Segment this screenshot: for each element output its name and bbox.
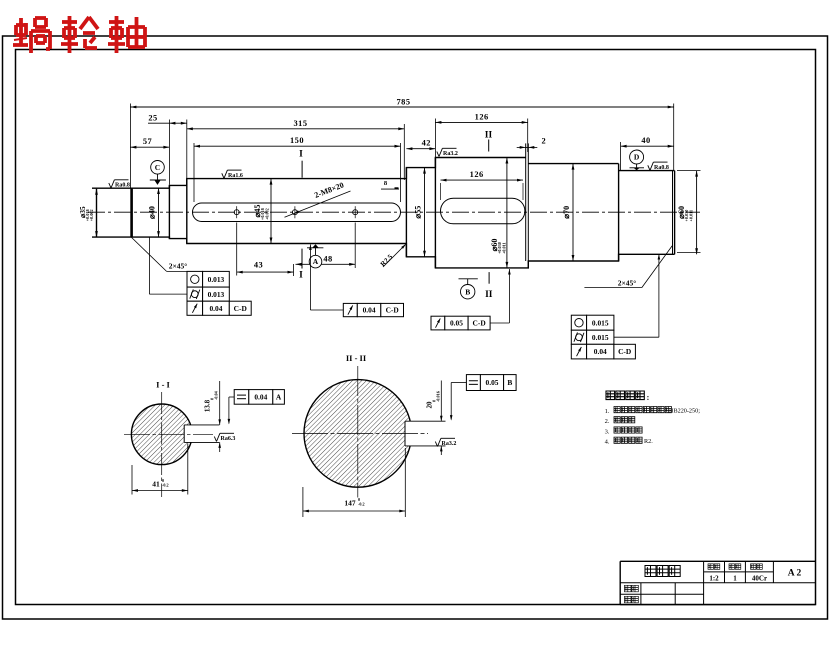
section II-II keyway flat xyxy=(404,421,406,446)
svg-text:-0.2: -0.2 xyxy=(162,483,169,488)
extension line right of 126 xyxy=(527,119,529,153)
dimension D70 xyxy=(572,164,575,170)
roughness Ra0.8 right journal xyxy=(648,165,650,170)
dimension 57 xyxy=(130,146,169,148)
dimension D35 arrows xyxy=(95,189,98,195)
svg-text:II - II: II - II xyxy=(346,353,367,363)
tolerance frame left leader xyxy=(148,238,150,295)
svg-text:147: 147 xyxy=(344,499,356,508)
extension line 57/25 shared xyxy=(168,120,170,185)
svg-text:I: I xyxy=(299,271,303,281)
dimension 126 top xyxy=(435,121,527,123)
section II-II centerline horizontal xyxy=(292,432,428,434)
thread callout 2-M8x20 leader xyxy=(285,191,351,217)
shoulder line (heavy) between left journal and D40 xyxy=(130,188,133,238)
section II-II keyway bottom line xyxy=(405,445,446,447)
svg-text:⌀40: ⌀40 xyxy=(148,206,157,219)
svg-text:126: 126 xyxy=(475,112,489,121)
roughness Ra3.2 in II-II xyxy=(435,442,437,447)
section I-I centerline horizontal xyxy=(124,433,213,435)
svg-text:1: 1 xyxy=(733,574,737,582)
dimension 147 xyxy=(303,510,405,512)
svg-text:Ra0.8: Ra0.8 xyxy=(654,165,669,171)
dimension 41 xyxy=(132,490,188,492)
extension line right of 315 xyxy=(403,124,405,180)
title block header material xyxy=(751,564,763,570)
tolerance frame middle leader xyxy=(309,245,312,251)
svg-text:A 2: A 2 xyxy=(788,569,802,579)
datum B xyxy=(459,278,478,280)
svg-text:⌀55: ⌀55 xyxy=(414,206,423,219)
title block header qty xyxy=(729,564,741,570)
section I-I keyway whiteout xyxy=(184,425,219,443)
groove right wall xyxy=(527,143,529,268)
svg-text:41: 41 xyxy=(152,480,160,489)
keyway II slot xyxy=(441,198,525,224)
svg-text:+0.002: +0.002 xyxy=(89,209,94,221)
parallelism frame A leader xyxy=(229,396,234,398)
svg-text:0.04: 0.04 xyxy=(254,393,267,402)
chamfer 2x45 left leader xyxy=(132,238,167,272)
svg-text:57: 57 xyxy=(143,137,152,146)
shaft bottom profile xyxy=(92,237,675,268)
chamfer 2x45 right leader xyxy=(584,287,641,289)
svg-text:0.05: 0.05 xyxy=(486,378,499,387)
svg-text:-0.04: -0.04 xyxy=(214,390,219,400)
svg-text:43: 43 xyxy=(254,260,263,269)
svg-text::: : xyxy=(647,393,650,402)
svg-text:150: 150 xyxy=(290,136,304,145)
tolerance frame right (0.015/0.015/0.04 C-D) xyxy=(571,315,586,330)
dimension 40 right xyxy=(621,145,674,147)
dimension 20 line xyxy=(440,381,442,422)
svg-text:785: 785 xyxy=(396,98,410,107)
right end chamfer line xyxy=(672,171,674,255)
section I-I keyway top line xyxy=(184,424,219,426)
extension line left of 126 xyxy=(434,119,436,158)
shaft top profile xyxy=(92,158,526,189)
shaft left end face xyxy=(96,189,98,237)
tech requirements heading xyxy=(606,391,644,400)
parallelism frame 0.04 A xyxy=(234,390,249,405)
svg-text:126: 126 xyxy=(470,170,484,179)
svg-text:Ra6.3: Ra6.3 xyxy=(221,436,236,442)
datum C xyxy=(150,179,166,181)
svg-text:0.04: 0.04 xyxy=(363,306,376,315)
tolerance frame right leader xyxy=(614,336,659,338)
section I-I centerline vertical xyxy=(161,392,163,497)
extension line 25/315 shared xyxy=(186,120,188,179)
svg-text:2×45°: 2×45° xyxy=(618,279,637,288)
extension line from hole2 xyxy=(354,223,356,269)
svg-text:13.8: 13.8 xyxy=(204,399,212,412)
right end face xyxy=(674,171,676,255)
title block header scale xyxy=(708,564,720,570)
extension line left of 785/57 xyxy=(129,104,131,188)
svg-text:A: A xyxy=(276,393,282,402)
svg-text:C: C xyxy=(155,163,160,172)
section line II bottom xyxy=(488,272,490,284)
dimension D60 big section xyxy=(506,158,509,164)
red title char 2 (LUN) xyxy=(61,16,98,53)
dimension 315 xyxy=(187,128,404,130)
svg-text:Ra0.8: Ra0.8 xyxy=(115,183,130,189)
svg-text:40: 40 xyxy=(641,136,650,145)
svg-text:B: B xyxy=(465,287,470,296)
svg-text:0.04: 0.04 xyxy=(594,347,607,356)
right journal top edge xyxy=(619,170,675,172)
parallelism frame 0.05 B xyxy=(466,375,480,391)
roughness Ra0.8 left journal xyxy=(109,183,111,188)
svg-text:-0.016: -0.016 xyxy=(436,391,441,402)
dimension D60 right journal xyxy=(695,171,698,177)
title block row checked-by xyxy=(625,596,639,603)
extension lines for dim 41 xyxy=(131,465,133,495)
extension line D60 right bottom xyxy=(677,251,701,253)
roughness Ra6.3 in I-I xyxy=(214,437,216,442)
tolerance frame big section (0.05 C-D) xyxy=(431,316,445,330)
svg-text:C-D: C-D xyxy=(386,306,399,315)
section II-II hatched circle xyxy=(304,380,412,488)
svg-text:+0.002: +0.002 xyxy=(264,208,269,220)
svg-text:42: 42 xyxy=(422,139,431,148)
svg-text:Ra3.2: Ra3.2 xyxy=(442,441,457,447)
svg-text:⌀70: ⌀70 xyxy=(562,206,571,219)
svg-text:25: 25 xyxy=(148,114,157,123)
fillet R2.5 leader xyxy=(383,245,406,268)
step face D70/right journal xyxy=(618,164,620,261)
svg-text:+0.011: +0.011 xyxy=(501,242,506,254)
section line II top xyxy=(488,140,490,152)
extension line for 43 right xyxy=(293,264,295,276)
svg-text:HB220-250;: HB220-250; xyxy=(669,408,700,415)
hole center mark xyxy=(292,210,297,215)
svg-text:2: 2 xyxy=(541,137,546,146)
dimension D55 xyxy=(423,168,426,174)
svg-text:Ra1.6: Ra1.6 xyxy=(228,173,243,179)
svg-text:A: A xyxy=(313,257,319,266)
svg-text:0.04: 0.04 xyxy=(209,304,222,313)
keyway II dim extension lines xyxy=(440,183,442,200)
svg-text:+0.011: +0.011 xyxy=(688,210,693,222)
section II-II centerline vertical xyxy=(357,366,359,498)
svg-text:D: D xyxy=(634,153,640,162)
svg-text:4.: 4. xyxy=(605,439,610,446)
roughness Ra3.2 big section xyxy=(437,152,439,157)
red title char 3 (ZHOU) xyxy=(108,16,145,53)
parallelism frame B leader xyxy=(451,382,466,384)
svg-text:0.05: 0.05 xyxy=(450,319,463,328)
svg-text:Ra3.2: Ra3.2 xyxy=(443,151,458,157)
groove left wall xyxy=(525,143,527,261)
section line I bottom xyxy=(301,249,303,269)
svg-text:B: B xyxy=(507,378,512,387)
dimension 2 groove xyxy=(526,146,529,148)
dimension D45 xyxy=(270,179,273,185)
dimension 42 xyxy=(406,148,435,150)
section I-I keyway flat xyxy=(183,425,185,443)
svg-text:II: II xyxy=(485,290,493,300)
svg-text:0.013: 0.013 xyxy=(208,275,225,284)
svg-text:0.015: 0.015 xyxy=(592,333,609,342)
svg-text:3.: 3. xyxy=(605,428,610,435)
svg-text:I: I xyxy=(299,150,303,160)
title block row drawn-by xyxy=(625,585,639,592)
extension line from hole1 xyxy=(236,223,238,276)
section II-II keyway top line xyxy=(405,420,446,422)
svg-text:0.015: 0.015 xyxy=(592,318,609,327)
svg-text:-0.2: -0.2 xyxy=(358,502,365,507)
svg-text:C-D: C-D xyxy=(234,304,247,313)
svg-text:I - I: I - I xyxy=(156,380,170,390)
svg-text:48: 48 xyxy=(323,254,332,263)
tolerance frame big section leader xyxy=(490,322,509,324)
datum A xyxy=(307,247,323,249)
svg-text:C-D: C-D xyxy=(473,319,486,328)
svg-text:1.: 1. xyxy=(605,408,610,415)
dimension 785 xyxy=(130,106,673,108)
dimension 126 keyway II xyxy=(441,179,524,181)
section II-II keyway whiteout xyxy=(405,421,441,446)
svg-text:40Cr: 40Cr xyxy=(752,574,767,582)
extension line right of 785/40 xyxy=(673,104,675,171)
title block part name xyxy=(645,566,680,577)
datum D xyxy=(630,167,645,169)
dimension 48 xyxy=(296,263,356,265)
dimension 13.8 line xyxy=(219,381,221,425)
svg-text:0.013: 0.013 xyxy=(208,290,225,299)
svg-text:2.: 2. xyxy=(605,418,610,425)
section I-I hatched circle xyxy=(131,404,192,465)
step face D40/D42 xyxy=(168,185,170,238)
svg-text:R2.: R2. xyxy=(644,438,653,445)
extension line left of 40 xyxy=(620,142,622,170)
roughness Ra1.6 middle section xyxy=(222,173,224,178)
shaft D70 top edge xyxy=(528,163,618,165)
extension line right of 150 xyxy=(400,143,402,202)
extension line left of 150 xyxy=(193,143,195,202)
keyway I slot xyxy=(193,203,401,222)
section I-I keyway bottom line xyxy=(184,441,219,443)
svg-text:315: 315 xyxy=(293,119,307,128)
dimension 43 xyxy=(237,271,294,273)
step face D55/big section xyxy=(434,158,436,268)
step face D45/D55 xyxy=(405,168,407,257)
tapped hole M8 #2 xyxy=(353,210,358,215)
extension line D60 right top xyxy=(677,170,701,172)
svg-text:1:2: 1:2 xyxy=(709,574,719,582)
svg-text:C-D: C-D xyxy=(618,347,631,356)
dimension 150 xyxy=(194,145,401,147)
svg-text:II: II xyxy=(485,131,493,141)
dimension 25 text extension xyxy=(148,122,169,124)
svg-text:2×45°: 2×45° xyxy=(169,262,188,271)
shaft main centerline xyxy=(88,211,700,213)
red title char 1 (WO) xyxy=(13,18,50,53)
section line I top xyxy=(301,161,303,178)
tolerance frame middle (0.04 C-D) xyxy=(343,303,357,316)
extension lines for dim 147 xyxy=(302,487,304,517)
dimension D40 xyxy=(157,188,160,194)
step face D42/D45 xyxy=(186,179,188,244)
title block grid xyxy=(620,560,815,562)
dimension 25 xyxy=(169,122,186,124)
tolerance frame left (0.013/0.013/0.04 C-D) xyxy=(187,271,203,287)
tapped hole M8 #1 xyxy=(234,210,239,215)
